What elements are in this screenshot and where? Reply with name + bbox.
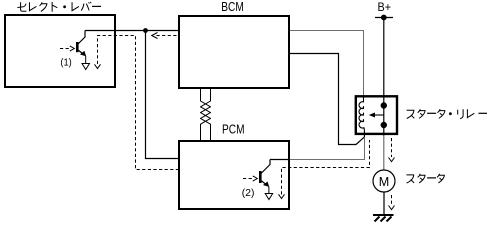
box PCM — [179, 141, 289, 209]
relay actuation arrow — [369, 113, 384, 118]
label starter (スタータ) — [406, 174, 444, 183]
dashed arrow out of BCM left — [152, 33, 179, 39]
relay contact arm — [383, 106, 385, 126]
harness twisted pair BCM-PCM — [201, 88, 211, 140]
svg-text:M: M — [379, 174, 390, 189]
signal arrow into Q2 base — [243, 176, 257, 181]
svg-text:B+: B+ — [378, 0, 392, 14]
wire BCM upper output to relay coil top (gray) — [290, 31, 364, 97]
transistor Q2 — [259, 160, 270, 194]
wire Q2 collector inside PCM — [270, 159, 290, 161]
wire PCM output to relay coil bottom (gray) — [290, 136, 365, 160]
label select-lever (セレクト・レバー) — [17, 2, 101, 12]
box starter relay — [356, 96, 397, 134]
box BCM — [179, 16, 289, 88]
dashed flow arrow motor to ground — [389, 195, 395, 210]
dashed flow path BCM to select lever down-arrow — [95, 36, 179, 170]
svg-text:(1): (1) — [60, 57, 71, 68]
wire junction to PCM — [146, 31, 179, 159]
relay coil — [359, 96, 364, 137]
motor M starter — [373, 170, 395, 192]
dashed flow path PCM down-arrow — [279, 140, 370, 199]
ground triangle inside select lever — [82, 64, 90, 70]
svg-text:PCM: PCM — [222, 123, 245, 137]
relay contact points — [381, 102, 387, 108]
svg-text:(2): (2) — [242, 188, 255, 199]
transistor Q1 collector wire — [78, 31, 85, 45]
power symbol B+ — [375, 0, 393, 20]
ground symbol — [373, 215, 394, 222]
box select lever unit — [5, 15, 115, 87]
node junction dot — [143, 28, 148, 33]
transistor Q1 — [76, 42, 86, 64]
signal arrow into Q1 base — [60, 46, 74, 51]
ground triangle inside PCM — [265, 194, 273, 200]
dashed flow arrow relay to motor — [389, 138, 395, 162]
svg-text:BCM: BCM — [221, 0, 244, 14]
wire motor to ground — [383, 192, 385, 215]
wire BCM lower output to relay coil bottom — [290, 54, 364, 145]
wire relay contact to motor — [383, 125, 385, 136]
label starter relay (スタータ・リレー) — [407, 109, 487, 119]
wire B+ to relay contact — [383, 18, 385, 106]
wire select lever to BCM — [85, 30, 179, 32]
